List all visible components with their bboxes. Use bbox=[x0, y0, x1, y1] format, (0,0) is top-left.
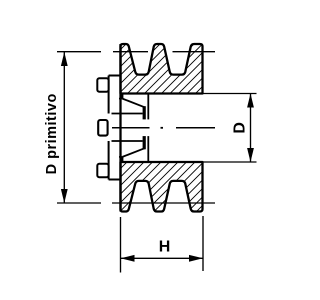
pulley upper rim section (hatched, 3 grooves) bbox=[121, 44, 203, 94]
centerline dash right bbox=[176, 127, 215, 129]
H extension line left bbox=[120, 217, 122, 273]
H dimension line bbox=[121, 257, 204, 259]
pitch line bottom through pulley bbox=[112, 202, 215, 204]
cap screw head top bbox=[97, 78, 108, 92]
taper bushing flange top edge bbox=[109, 75, 120, 77]
H extension line right bbox=[202, 216, 204, 271]
cap screw head bottom bbox=[97, 164, 108, 178]
pulley lower rim section (hatched, 3 grooves, mirrored) bbox=[121, 162, 203, 212]
pitch line top segment left (extension) bbox=[57, 51, 101, 53]
svg-text:H: H bbox=[159, 239, 171, 256]
centerline dash left bbox=[112, 127, 150, 129]
taper bushing flange left edge lower bbox=[108, 141, 110, 180]
taper bushing flange left edge upper bbox=[108, 76, 110, 114]
hub face stub top bbox=[121, 94, 123, 99]
svg-text:D: D bbox=[231, 122, 248, 134]
hub face stub bottom bbox=[121, 157, 123, 162]
pitch line bottom segment left (extension) bbox=[57, 202, 101, 204]
taper bushing flange bottom edge bbox=[109, 179, 120, 181]
pitch line top through grooves bbox=[113, 51, 148, 53]
bore bottom edge / D extension line bbox=[203, 161, 257, 163]
D dimension line right bbox=[250, 94, 252, 163]
centerline dot bbox=[161, 127, 164, 129]
H arrow right bbox=[189, 255, 203, 262]
D primitivo dimension line bbox=[63, 52, 65, 203]
D arrow down bbox=[247, 148, 254, 162]
hub right face top bbox=[147, 94, 149, 120]
pulley left face line bbox=[119, 44, 121, 212]
pitch line top right part bbox=[173, 51, 216, 53]
D primitivo arrow down bbox=[61, 189, 68, 203]
hub step ledge top bbox=[119, 98, 122, 100]
bushing bore edge top bbox=[112, 113, 143, 115]
hub right face bottom bbox=[147, 136, 149, 162]
bushing bore edge bottom bbox=[112, 140, 143, 142]
bushing wedge tip bar top (solid) bbox=[143, 106, 146, 119]
H arrow left bbox=[121, 255, 135, 262]
taper interface diagonal top bbox=[122, 99, 144, 108]
bushing wedge tip bar bottom (solid) bbox=[143, 136, 146, 149]
bore top edge / D extension line bbox=[203, 93, 257, 95]
svg-text:D primitivo: D primitivo bbox=[44, 93, 60, 174]
taper interface diagonal bottom bbox=[122, 148, 144, 157]
D primitivo arrow up bbox=[61, 52, 68, 66]
screw end square at centerline bbox=[98, 120, 107, 136]
hub step ledge bottom bbox=[119, 156, 122, 158]
D arrow up bbox=[247, 94, 254, 108]
